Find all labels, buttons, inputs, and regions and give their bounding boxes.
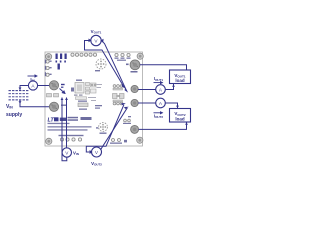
silkscreen pin labels top-left: [56, 54, 67, 70]
small pads pair mid-right lower: [124, 119, 131, 122]
PCB board outline: [45, 52, 143, 146]
ammeter IOUT2: [156, 98, 166, 108]
svg-text:VIN: VIN: [73, 151, 79, 157]
tick at VOUT1 meter right terminal: [101, 39, 104, 43]
battery VIN supply: [9, 91, 29, 100]
turret GND (left): [49, 102, 58, 111]
voltmeter VOUT1 (top): [91, 35, 101, 45]
LT logo: [48, 117, 92, 131]
mounting hole bottom-right: [137, 137, 143, 143]
wire ammeter IOUT2 to load box2: [165, 103, 177, 108]
inductor L1 footprint: [96, 59, 106, 69]
label L1: [95, 70, 100, 71]
mounting hole bottom-left: [46, 138, 52, 144]
voltmeter VOUT2 (bottom): [92, 147, 102, 157]
svg-text:load: load: [175, 117, 185, 122]
svg-text:IIN: IIN: [30, 77, 34, 83]
silkscreen marks right of VIN turret: [61, 84, 65, 88]
svg-text:IOUT2: IOUT2: [154, 113, 164, 119]
silkscreen labels left edge: [45, 60, 52, 77]
test pads top edge row: [71, 53, 130, 57]
wire GND2 turret to load box2 bottom: [139, 122, 187, 129]
test pads left edge column: [46, 60, 49, 77]
label IIN with arrow: [28, 75, 38, 77]
svg-text:LT: LT: [48, 118, 55, 124]
footprint H cluster (right-mid): [113, 94, 125, 99]
svg-text:VIN: VIN: [6, 104, 13, 110]
wire ammeter IOUT1 to GND1 turret: [138, 89, 156, 91]
silkscreen labels top-right pads: [115, 58, 131, 61]
wire voltmeter VOUT1 left lead: [85, 41, 125, 88]
capacitor bank C8 row: [113, 100, 123, 105]
jumper arrow near VIN: [60, 89, 66, 94]
passives cluster above GND turret: [47, 94, 59, 97]
svg-text:VOUT1: VOUT1: [91, 29, 102, 35]
svg-text:load: load: [175, 78, 185, 83]
passives cluster right of GND turret: [61, 103, 88, 110]
test pads bottom edge row: [60, 138, 120, 142]
turret VOUT1: [130, 60, 140, 70]
svg-text:supply: supply: [6, 112, 22, 118]
turret GND1 (right): [131, 85, 138, 92]
mounting hole top-left: [46, 54, 52, 60]
wire voltmeter VOUT2 left lead: [86, 105, 124, 153]
wire voltmeter VIN bottom lead: [62, 98, 67, 161]
wire voltmeter VIN top lead: [66, 98, 68, 148]
IC U1 cluster: [71, 80, 102, 102]
svg-text:VOUT2: VOUT2: [91, 161, 102, 167]
capacitor bank C7 row (right-mid): [113, 85, 123, 90]
turret VOUT2: [131, 99, 138, 106]
voltmeter VIN (bottom): [62, 148, 71, 157]
wire voltmeter VOUT2 right lead: [101, 108, 128, 150]
ammeter IOUT1: [156, 85, 166, 95]
silkscreen text bottom mid: [59, 105, 128, 144]
label L2: [96, 127, 107, 134]
turret VIN: [49, 81, 58, 90]
wire VOUT2 turret to ammeter IOUT2: [138, 102, 156, 104]
wire battery- to GND turret: [20, 100, 50, 107]
tick at VOUT1 meter left terminal: [89, 39, 92, 43]
wire VOUT1 turret to load box1: [140, 65, 187, 70]
load box VOUT2: [170, 109, 191, 123]
turret GND2 (right): [131, 125, 139, 133]
wire ammeter IIN to VIN turret: [38, 85, 50, 87]
tick at VOUT2 meter left terminal: [90, 150, 93, 154]
ammeter IIN: [28, 81, 37, 90]
label IOUT2 with arrow: [154, 112, 163, 114]
wire load box1 to ammeter IOUT1: [166, 84, 174, 90]
inductor L2 footprint: [99, 123, 108, 132]
wire voltmeter VOUT1 right lead: [101, 41, 127, 92]
svg-text:IOUT1: IOUT1: [154, 76, 164, 82]
wire battery+ to ammeter IIN: [20, 86, 28, 91]
load box VOUT1: [170, 70, 191, 84]
label near VOUT1 turret: [126, 64, 138, 73]
mounting hole top-right: [137, 53, 143, 59]
